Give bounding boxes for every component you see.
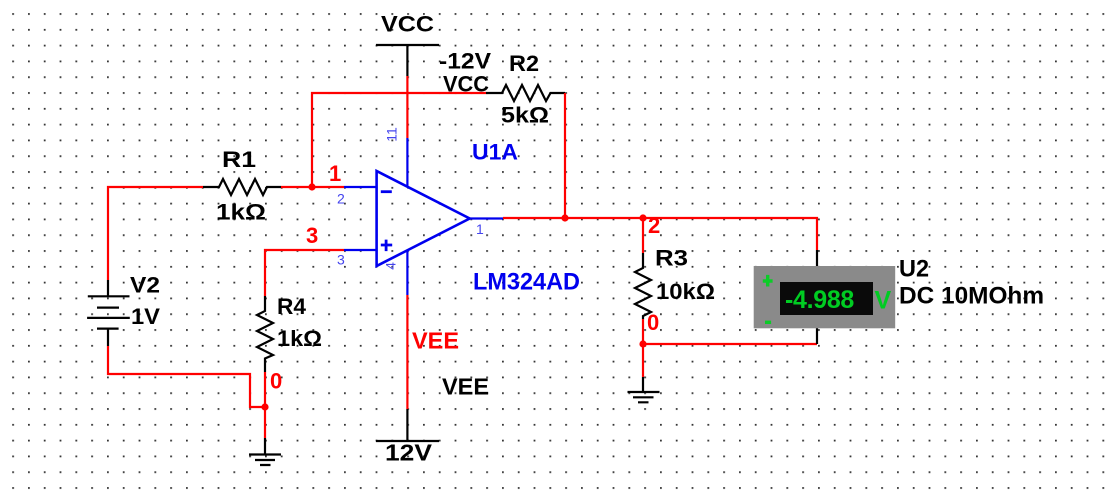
svg-text:R3: R3 <box>655 246 688 271</box>
svg-text:10kΩ: 10kΩ <box>656 279 715 304</box>
op-amp minus input mark <box>381 190 392 193</box>
resistor R4 <box>257 296 273 372</box>
svg-text:V: V <box>875 287 892 315</box>
junction node 0 right <box>639 340 646 347</box>
svg-text:-12V: -12V <box>439 49 491 74</box>
wire meter bottom to node 0 <box>643 343 817 345</box>
pin2 stub <box>344 186 377 188</box>
voltmeter plus mark <box>763 275 773 287</box>
op-amp plus input mark <box>381 240 392 252</box>
resistor R2 <box>486 85 565 101</box>
voltmeter U2 body <box>754 266 896 328</box>
op-amp U1A triangle <box>377 171 470 266</box>
wire feedback top <box>312 93 486 187</box>
svg-text:R2: R2 <box>509 51 539 76</box>
svg-text:3: 3 <box>306 223 318 248</box>
wire output to meter <box>503 218 817 250</box>
svg-text:1: 1 <box>329 161 341 186</box>
pin 4 wire blue <box>406 251 408 295</box>
svg-text:R1: R1 <box>222 147 256 172</box>
svg-text:U2: U2 <box>899 256 929 283</box>
wire pin11 red <box>406 76 408 138</box>
wire R2 to output <box>564 93 566 218</box>
svg-text:1kΩ: 1kΩ <box>216 200 266 225</box>
svg-text:5kΩ: 5kΩ <box>501 103 549 128</box>
meter top lead black <box>816 250 818 266</box>
svg-text:12V: 12V <box>385 440 433 466</box>
wire R4 to pin3 <box>265 250 344 296</box>
power symbol VCC <box>376 45 439 76</box>
svg-text:VCC: VCC <box>381 12 434 37</box>
meter bottom lead black <box>816 328 818 344</box>
junction output <box>561 214 568 221</box>
voltmeter minus mark <box>765 321 771 324</box>
svg-text:DC 10MOhm: DC 10MOhm <box>899 283 1044 310</box>
wire R3 bottom <box>642 319 644 377</box>
pin1 output stub <box>470 217 503 219</box>
wire V2 bottom to node 0 <box>108 346 265 407</box>
wire from V2 to R1 <box>108 187 203 280</box>
junction node 0 left <box>261 403 268 410</box>
svg-text:11: 11 <box>384 127 400 142</box>
wire R4 bottom <box>264 372 266 438</box>
svg-text:U1A: U1A <box>472 140 518 165</box>
voltmeter display <box>780 282 873 315</box>
pin3 stub <box>344 249 377 251</box>
junction node 1 <box>308 183 315 190</box>
pin 4 wire red VEE <box>406 295 408 409</box>
ground left <box>249 438 281 465</box>
power symbol VEE <box>376 409 439 441</box>
svg-text:3: 3 <box>337 252 345 268</box>
svg-text:2: 2 <box>648 213 660 238</box>
wire R3 top <box>642 218 644 253</box>
svg-text:0: 0 <box>647 310 659 335</box>
resistor R1 <box>203 179 281 195</box>
ground right <box>628 377 660 402</box>
svg-text:1V: 1V <box>131 304 160 329</box>
svg-text:1kΩ: 1kΩ <box>277 326 322 351</box>
svg-text:R4: R4 <box>277 294 307 319</box>
svg-text:-4.988: -4.988 <box>785 286 854 314</box>
svg-text:VEE: VEE <box>442 374 489 400</box>
svg-text:0: 0 <box>270 369 282 394</box>
svg-text:VEE: VEE <box>412 328 459 354</box>
svg-text:4: 4 <box>383 262 399 270</box>
wire R1 to pin2 <box>281 186 344 188</box>
svg-text:LM324AD: LM324AD <box>473 269 580 296</box>
battery V2 <box>87 280 130 346</box>
svg-text:2: 2 <box>337 191 345 207</box>
svg-text:1: 1 <box>476 221 484 237</box>
svg-text:V2: V2 <box>130 273 160 298</box>
resistor R3 <box>635 253 651 319</box>
wire pin11 blue <box>406 138 408 186</box>
junction node 2 <box>639 214 646 221</box>
